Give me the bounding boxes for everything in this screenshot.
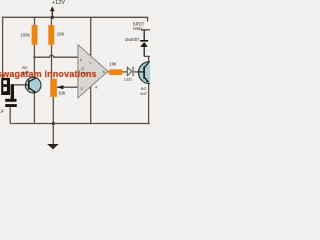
svg-text:741: 741 [81,71,87,75]
capacitor C1 [5,99,17,107]
svg-text:10K: 10K [109,61,117,66]
wire: ground stem [52,124,54,145]
wire: node A link to pin 2 with hop [34,55,78,57]
wire: relay box bottom edge [144,55,150,57]
node: ground junction dot [52,122,55,125]
transistor Q2 BC547 [139,62,161,84]
svg-text:1N4007: 1N4007 [125,37,140,42]
svg-text:547: 547 [140,91,147,96]
rain sensor probes [1,78,14,101]
wire: diode leads / relay box left edge [143,30,145,57]
wire: pin 4 to ground rail [90,87,92,124]
svg-text:LED: LED [124,77,132,82]
svg-text:6: 6 [103,69,105,74]
svg-text:100K: 100K [20,32,30,37]
wire: Q2 emitter lead [148,83,150,123]
power symbol +12V arrow [50,6,55,17]
diode D1 1N4007 [140,40,148,47]
wire: R2 bottom lead to preset [51,45,53,79]
svg-text:3: 3 [80,86,82,91]
ground [47,144,59,149]
svg-text:10K: 10K [58,91,66,96]
LED D2 [127,67,134,77]
svg-text:7: 7 [89,61,91,66]
node: +12V junction dot [51,15,55,19]
resistor R2 10K [48,25,54,45]
svg-text:+12V: +12V [52,0,66,6]
node: pin2 tee junction [33,56,35,58]
wire: relay box top edge [141,29,150,31]
wire: sensor to Q1 base [14,84,29,86]
wire: R1 top lead [34,17,36,25]
wire: R1 bottom lead to Q1 collector [33,45,35,78]
svg-text:uF: uF [0,109,5,114]
wire: bottom ground rail [10,123,150,125]
wire: LED to Q2 base [134,71,144,73]
wire: left supply drop [2,17,4,78]
wire: preset wiper to pin 3 [57,86,78,88]
svg-text:547: 547 [22,70,29,75]
wire: op-amp output to R3 [108,71,110,73]
svg-text:10K: 10K [57,32,65,37]
wire: R3 to LED [123,71,128,73]
wire: preset bottom lead [52,97,54,124]
wire: pin 7 supply [90,17,92,56]
wire: relay drop from rail [147,17,149,21]
svg-text:relay: relay [133,26,143,31]
resistor R3 10K [109,69,122,75]
wire: R2 top lead [50,17,52,25]
svg-text:IC: IC [81,67,85,71]
svg-text:2: 2 [80,57,82,62]
wire: capacitor bottom lead [9,107,11,124]
resistor R1 100K [32,25,38,45]
transistor Q1 BC547 [25,77,41,93]
wire: +12V top rail [2,16,148,18]
preset wiper arrow [57,85,63,89]
wire: Q2 collector lead [148,56,150,62]
op-amp U1 IC741 [78,45,108,98]
preset P1 10K [50,79,57,97]
wire: Q1 emitter lead [33,93,35,124]
